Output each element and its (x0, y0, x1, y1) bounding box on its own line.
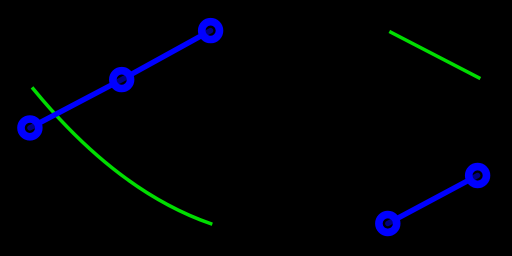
node marker 5 (469, 167, 487, 185)
node marker 4 (379, 215, 397, 233)
green curve segment 1 (left, descending concave curve) (33, 89, 211, 224)
node marker 1 (21, 119, 39, 137)
blue line B (lower right, markers 4-5) (388, 176, 478, 224)
node marker 3 (202, 22, 220, 40)
green line segment 2 (upper right, straight) (391, 32, 479, 77)
node marker 2 (113, 71, 131, 89)
blue line A (through markers 1-2-3) (30, 31, 211, 128)
